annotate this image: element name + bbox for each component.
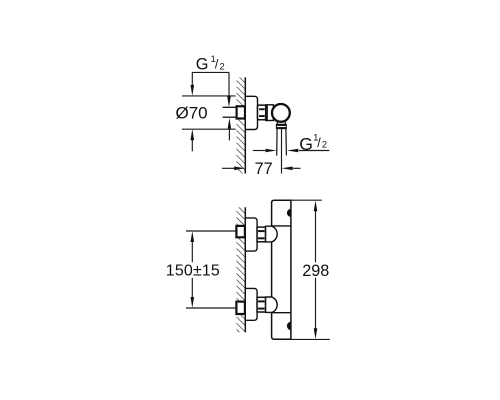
77 dimension left arrow: [222, 167, 235, 169]
thermostat bar body: [272, 200, 291, 339]
second arrow to pipe from below: [228, 129, 230, 140]
hose collar nut: [276, 124, 286, 128]
lower escutcheon: [245, 288, 257, 320]
G1/2 label underline: [192, 71, 229, 73]
wall line: [244, 77, 246, 173]
svg-text:/: /: [317, 136, 321, 150]
lower square nipple: [236, 302, 245, 314]
upper escutcheon: [245, 218, 257, 251]
label G 1/2 (top): [196, 54, 225, 73]
150±15 dimension line with arrows: [191, 231, 195, 242]
pipe through wall: [223, 107, 237, 117]
svg-text:G: G: [196, 55, 209, 73]
hose G1/2 dimension right arrow with line under label: [287, 149, 298, 153]
bottom cap screw detail: [287, 322, 291, 331]
valve body cylinder: [266, 105, 274, 121]
bottom joint line of bar: [272, 312, 291, 314]
wall hatching lower part: [237, 119, 246, 174]
svg-text:77: 77: [255, 160, 273, 178]
hose neck below knob: [277, 122, 285, 125]
Ø70 extension line bottom: [182, 128, 236, 130]
label G 1/2 (hose): [299, 133, 327, 154]
top cap screw detail: [287, 209, 291, 217]
150±15 extension line top: [186, 230, 236, 232]
298 extension line top: [291, 199, 322, 201]
shower hose: [277, 129, 287, 156]
upper square nipple: [236, 226, 245, 237]
150±15 extension line bottom: [186, 307, 236, 309]
Ø70 bottom arrow: [191, 140, 193, 151]
wall hatching upper part: [237, 77, 246, 106]
hex nut (side view): [258, 105, 266, 120]
298 dimension line with arrows: [314, 200, 318, 211]
lower hex nut: [257, 297, 265, 312]
svg-text:Ø70: Ø70: [176, 104, 208, 123]
upper union cone: [266, 226, 278, 242]
square union nipple behind wall: [237, 106, 245, 118]
upper hex nut: [257, 227, 265, 242]
svg-text:2: 2: [322, 139, 327, 149]
svg-text:298: 298: [302, 262, 329, 280]
G1/2 right leader with arrow to pipe: [228, 72, 230, 98]
lower union cone: [266, 297, 278, 312]
escutcheon (top view): [245, 96, 257, 129]
top joint line of bar: [272, 225, 291, 227]
svg-text:150±15: 150±15: [166, 263, 220, 280]
77 dimension right arrow: [282, 167, 293, 171]
svg-text:/: /: [215, 58, 219, 72]
G1/2 left leader with arrow (also top arrow of Ø70): [191, 72, 193, 87]
298 extension line bottom: [292, 338, 330, 340]
svg-text:2: 2: [220, 61, 225, 71]
hose centerline: [281, 129, 283, 174]
valve knob circle: [272, 104, 290, 122]
wall hatching segments: [237, 207, 246, 226]
hose G1/2 dimension left arrow: [253, 150, 265, 152]
Ø70 extension line top: [182, 95, 236, 97]
wall line (bottom drawing): [244, 207, 246, 332]
